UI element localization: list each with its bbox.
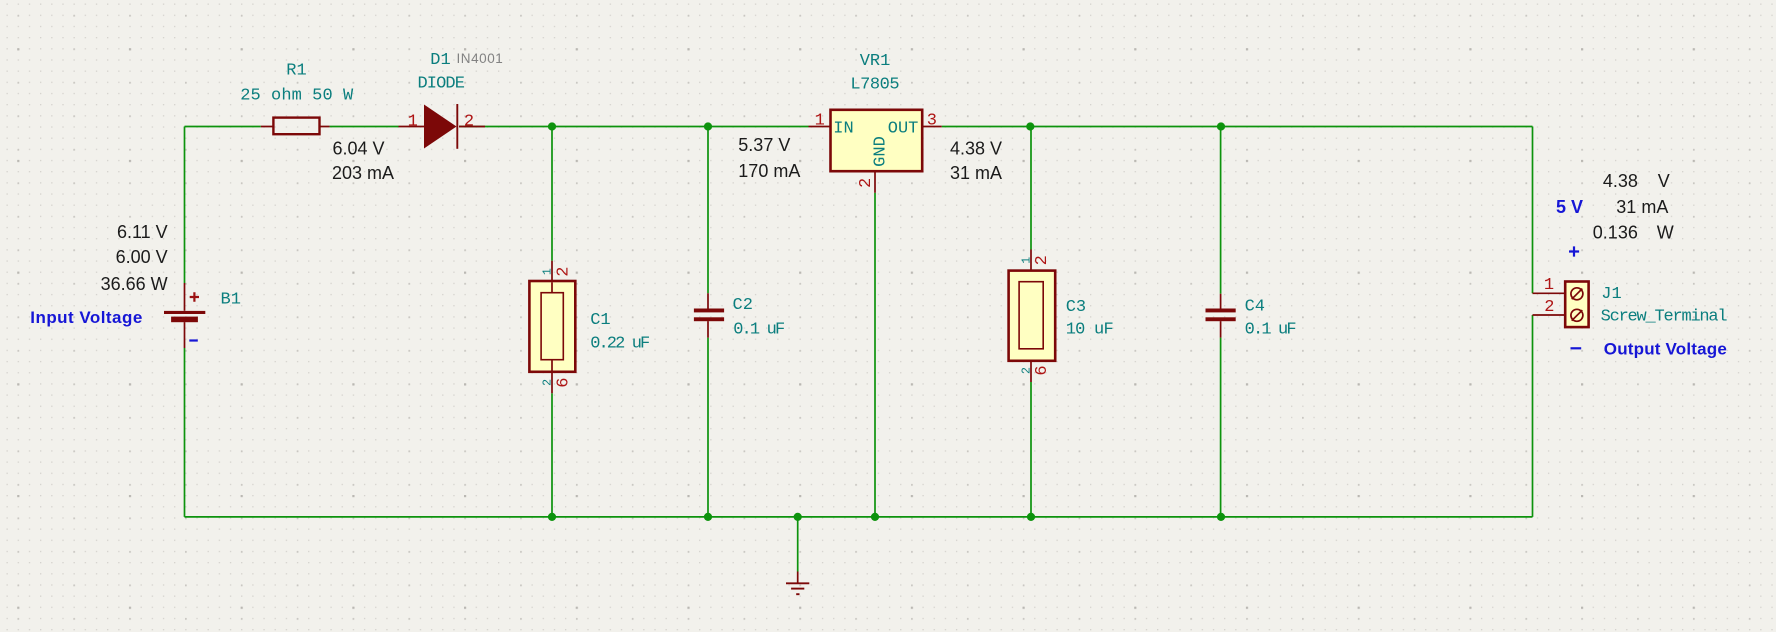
svg-text:31 mA: 31 mA (950, 163, 1002, 183)
svg-text:2: 2 (1020, 367, 1033, 374)
capacitor C1 (529, 261, 575, 394)
svg-text:2: 2 (1033, 255, 1052, 265)
wire ground stem (797, 517, 799, 572)
svg-text:J1: J1 (1601, 285, 1621, 304)
wire C4 branch (1220, 127, 1222, 517)
svg-text:31 mA: 31 mA (1616, 197, 1668, 217)
svg-text:0.136: 0.136 (1593, 223, 1638, 243)
svg-text:170 mA: 170 mA (738, 161, 800, 181)
wire left vertical (184, 127, 186, 517)
svg-text:1: 1 (1544, 276, 1554, 295)
svg-text:C1: C1 (590, 311, 610, 330)
wire C2 branch (707, 127, 709, 517)
svg-text:1: 1 (542, 268, 555, 275)
svg-text:D1: D1 (430, 51, 450, 70)
battery minus annotation (189, 339, 198, 341)
capacitor C4 (1206, 294, 1236, 338)
regulator VR1 (809, 110, 942, 193)
svg-text:IN4001: IN4001 (457, 51, 504, 66)
diode D1 (399, 104, 486, 149)
wire bottom bus (185, 516, 1533, 518)
svg-text:6: 6 (1033, 365, 1052, 375)
resistor R1 (261, 118, 330, 135)
svg-text:10 uF: 10 uF (1066, 321, 1114, 340)
svg-text:4.38: 4.38 (1603, 171, 1638, 191)
minus annotation at J1 (1571, 347, 1582, 349)
svg-text:25 ohm 50 W: 25 ohm 50 W (240, 87, 354, 106)
svg-text:5 V: 5 V (1556, 197, 1583, 217)
svg-text:0.1 uF: 0.1 uF (733, 320, 785, 339)
svg-text:B1: B1 (221, 290, 241, 309)
svg-text:VR1: VR1 (860, 52, 891, 71)
plus annotation at J1 (1569, 246, 1579, 256)
svg-text:C3: C3 (1066, 298, 1086, 317)
svg-text:DIODE: DIODE (417, 75, 465, 94)
svg-text:1: 1 (1020, 257, 1033, 264)
svg-text:GND: GND (871, 136, 890, 167)
svg-text:36.66 W: 36.66 W (101, 274, 168, 294)
junction dots bottom bus (548, 513, 1225, 521)
wire VR1 gnd branch (874, 193, 876, 517)
svg-text:R1: R1 (286, 62, 306, 81)
svg-text:6.00 V: 6.00 V (116, 247, 168, 267)
capacitor C2 (694, 293, 724, 337)
svg-text:Screw_Terminal: Screw_Terminal (1601, 308, 1728, 327)
svg-text:2: 2 (1544, 298, 1554, 317)
svg-text:3: 3 (927, 112, 937, 131)
svg-text:2: 2 (542, 379, 555, 386)
wire top bus (185, 126, 1533, 128)
svg-text:0.22 uF: 0.22 uF (590, 335, 650, 354)
battery B1 (164, 283, 205, 348)
capacitor C3 (1009, 250, 1056, 383)
wire C1 branch (551, 127, 553, 517)
connector J1 (1533, 282, 1589, 328)
svg-text:4.38 V: 4.38 V (950, 138, 1002, 158)
svg-text:IN: IN (833, 120, 853, 139)
svg-text:2: 2 (464, 113, 474, 132)
svg-text:L7805: L7805 (850, 75, 899, 94)
svg-text:2: 2 (857, 178, 876, 188)
svg-text:2: 2 (554, 266, 573, 276)
junction dots top bus (548, 122, 1225, 130)
wire right vertical (1532, 127, 1534, 517)
svg-text:Output Voltage: Output Voltage (1604, 340, 1727, 359)
svg-text:6.04 V: 6.04 V (333, 138, 385, 158)
svg-text:Input Voltage: Input Voltage (30, 308, 142, 327)
svg-text:6: 6 (554, 377, 573, 387)
svg-text:203 mA: 203 mA (332, 163, 394, 183)
svg-text:V: V (1658, 171, 1670, 191)
svg-text:OUT: OUT (888, 119, 919, 138)
ground symbol (786, 572, 809, 595)
svg-text:0.1 uF: 0.1 uF (1245, 321, 1297, 340)
svg-text:5.37 V: 5.37 V (738, 135, 790, 155)
svg-text:1: 1 (815, 112, 825, 131)
svg-text:C4: C4 (1245, 298, 1265, 317)
svg-text:6.11 V: 6.11 V (117, 222, 168, 242)
svg-text:C2: C2 (733, 296, 753, 315)
wire C3 branch (1030, 127, 1032, 517)
svg-text:1: 1 (408, 113, 418, 132)
svg-text:W: W (1657, 223, 1674, 243)
